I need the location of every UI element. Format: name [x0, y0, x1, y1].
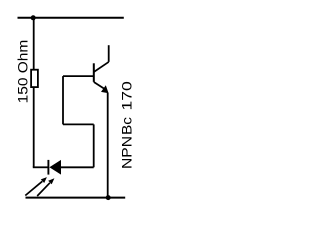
LED D1 cathode bar — [47, 160, 49, 175]
wire bottom ground rail — [26, 197, 126, 199]
svg-text:150 Ohm: 150 Ohm — [15, 40, 31, 104]
svg-text:Bc: Bc — [118, 117, 134, 135]
wire right vertical up — [93, 124, 95, 167]
wire from top node down to resistor — [33, 18, 35, 70]
transistor Q1 base bar — [93, 63, 95, 82]
resistor R1 150 Ohm — [31, 70, 38, 87]
light arrow 1 — [25, 177, 47, 195]
svg-text:NPN: NPN — [118, 136, 134, 169]
wire LED anode to right vertical — [61, 166, 94, 168]
wire from resistor down to LED — [33, 87, 35, 167]
wire top supply rail — [18, 17, 124, 19]
transistor Q1 emitter arrowhead — [101, 85, 109, 93]
light arrow 2 — [37, 178, 54, 196]
wire base lead — [63, 75, 94, 77]
wire left vertical up to base — [62, 76, 64, 124]
node junction dot bottom — [106, 195, 111, 200]
LED D1 triangle — [49, 160, 61, 175]
wire emitter down to bottom rail — [107, 93, 109, 198]
node junction dot top — [31, 15, 36, 20]
transistor Q1 collector diagonal — [94, 62, 109, 72]
wire corner to LED cathode — [33, 166, 49, 168]
wire horizontal middle — [63, 123, 94, 125]
svg-text:170: 170 — [118, 81, 134, 111]
type label NPN Bc 170 — [118, 81, 134, 169]
transistor Q1 collector lead up — [108, 45, 110, 62]
transistor Q1 emitter diagonal — [94, 82, 105, 89]
